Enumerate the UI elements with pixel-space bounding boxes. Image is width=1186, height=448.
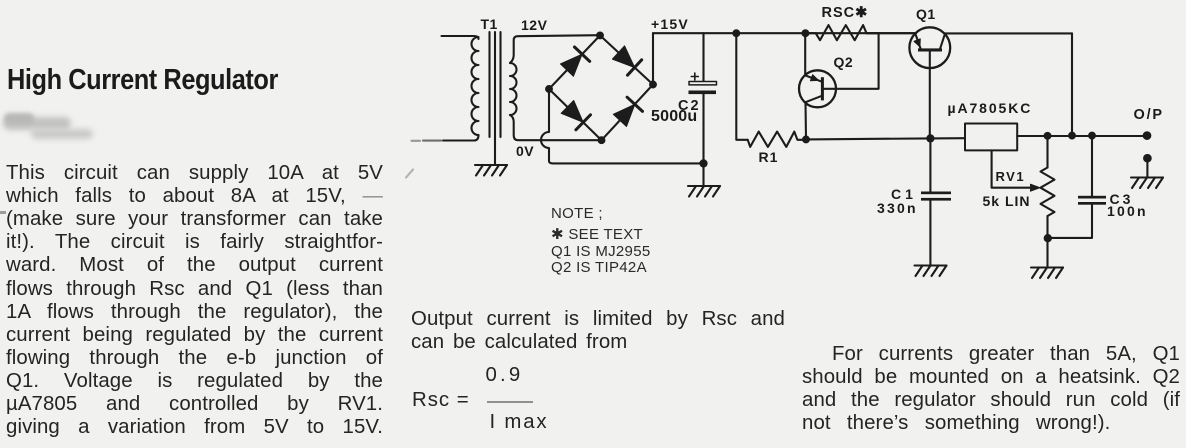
wire bridge side top-right [600, 35, 653, 84]
wire +15V rail [653, 32, 916, 34]
label C1 [891, 186, 917, 202]
diode D2 (top-right arm) [612, 46, 641, 75]
label 100n [1107, 203, 1148, 219]
potentiometer RV1 [1041, 168, 1055, 217]
capacitor C2 bottom plate [689, 91, 717, 95]
capacitor C2 stem top [702, 33, 704, 81]
label 0V [516, 143, 534, 159]
wire ground terminal stem [1146, 158, 1148, 176]
label 5k LIN [983, 193, 1031, 209]
wire bridge side top-left [549, 35, 600, 89]
NOTE block [551, 206, 650, 276]
wire Q2 emitter up to rail [804, 33, 806, 75]
wire rail RSC to Q1 [867, 32, 917, 34]
wire secondary top to 12V node [510, 35, 600, 63]
wire secondary bottom (0V) [510, 115, 602, 140]
capacitor C2 top plate (hollow) [689, 82, 717, 85]
capacitor C1 plates [921, 192, 951, 195]
resistor R1 [748, 132, 806, 147]
left body text column [6, 162, 383, 439]
node bridge left [546, 86, 552, 92]
wire junction to ground [702, 163, 704, 185]
wire Q1 base down to regulator input [929, 52, 931, 139]
capacitor C3 stem top [1091, 136, 1093, 196]
node RV1 top [1045, 133, 1051, 139]
wire Q2 base riser [824, 33, 879, 89]
transformer T1 primary top lead [442, 36, 479, 39]
label C2 [678, 98, 701, 114]
transformer T1 secondary winding [510, 63, 517, 115]
transformer T1 primary winding [472, 37, 479, 135]
ground (output) [1131, 178, 1163, 189]
capacitor C2 polarity plus [691, 73, 698, 80]
transistor Q2 [799, 70, 836, 107]
node C3 top [1089, 133, 1095, 139]
label 12V [521, 17, 547, 33]
transistor Q1 [909, 27, 950, 68]
capacitor C2 stem bottom [702, 94, 704, 163]
ground (transformer core) [475, 165, 507, 176]
wire Q2 collector down to R1 node [804, 102, 807, 139]
label 330n [877, 200, 918, 216]
capacitor C1 stem bottom [929, 201, 931, 265]
node R1 right / Q2 collector [803, 137, 809, 143]
capacitor C1 stem top [929, 138, 931, 191]
wire RV1 top lead [1046, 136, 1048, 168]
label R1 [759, 149, 779, 165]
diode D1 (top-left arm) [560, 47, 589, 76]
diode D3 (left-bottom arm) [561, 101, 590, 130]
wire regulator input line [806, 138, 965, 139]
wire corner down to output line [1071, 33, 1073, 135]
label Q2 [834, 54, 854, 70]
node bridge bottom [599, 137, 605, 143]
wire bridge side left-bottom [549, 89, 602, 140]
node bridge top [597, 33, 603, 39]
diode D4 (bottom-right arm) [613, 97, 642, 126]
heading: High Current Regulator [7, 64, 278, 97]
label O/P [1134, 107, 1164, 123]
label Q1 [916, 6, 936, 22]
label RSC* [822, 5, 869, 21]
wire regulator adj pin to wiper arrow [992, 150, 1032, 187]
node Q1 base / C1 [927, 135, 933, 141]
node RV1 bottom / C3 return [1045, 235, 1051, 241]
label +15V [651, 16, 689, 32]
node output ground terminal [1144, 155, 1151, 162]
transformer T1 primary bottom lead [443, 135, 479, 141]
middle bottom text [411, 308, 785, 354]
node +15V / R1 branch [733, 30, 739, 36]
label RV1 [996, 169, 1026, 184]
wire bridge right corner up to +15V rail [652, 33, 654, 84]
transformer T1 core [490, 32, 501, 138]
wire core to ground [494, 138, 496, 165]
node bridge right [650, 82, 656, 88]
wire RV1 bottom lead [1046, 216, 1048, 266]
capacitor C3 plates [1078, 196, 1106, 199]
faded lead continuation [423, 140, 441, 142]
stray scan mark [406, 170, 413, 178]
wire down to R1 [736, 33, 747, 140]
capacitor C3 stem bottom to RV1 bottom node [1048, 205, 1092, 238]
label 5000u [651, 108, 697, 126]
regulator U1 box [965, 124, 1017, 151]
label T1 [481, 16, 498, 32]
wire bridge left corner down with hop, to ground rail [541, 89, 704, 163]
wiper arrowhead [1031, 184, 1041, 191]
wire bridge side bottom-right [602, 85, 654, 141]
right bottom text column [802, 343, 1180, 435]
ground (RV1) [1031, 268, 1063, 279]
node rail corner junction [1069, 133, 1075, 139]
node C2 bottom junction [700, 160, 706, 166]
label uA7805KC [948, 100, 1033, 116]
wire Q1 collector rail to corner [945, 32, 1072, 34]
node O/P terminal [1144, 132, 1151, 139]
smudge artifact under heading [3, 112, 103, 146]
ground (C2) [688, 186, 720, 197]
formula Rsc = 0.9 / I max [412, 389, 470, 412]
resistor RSC [805, 25, 878, 40]
wire regulator output line [1017, 135, 1147, 137]
label C3 [1110, 191, 1134, 207]
ground (C1) [915, 266, 947, 277]
node Q2 emitter on rail [803, 30, 809, 36]
